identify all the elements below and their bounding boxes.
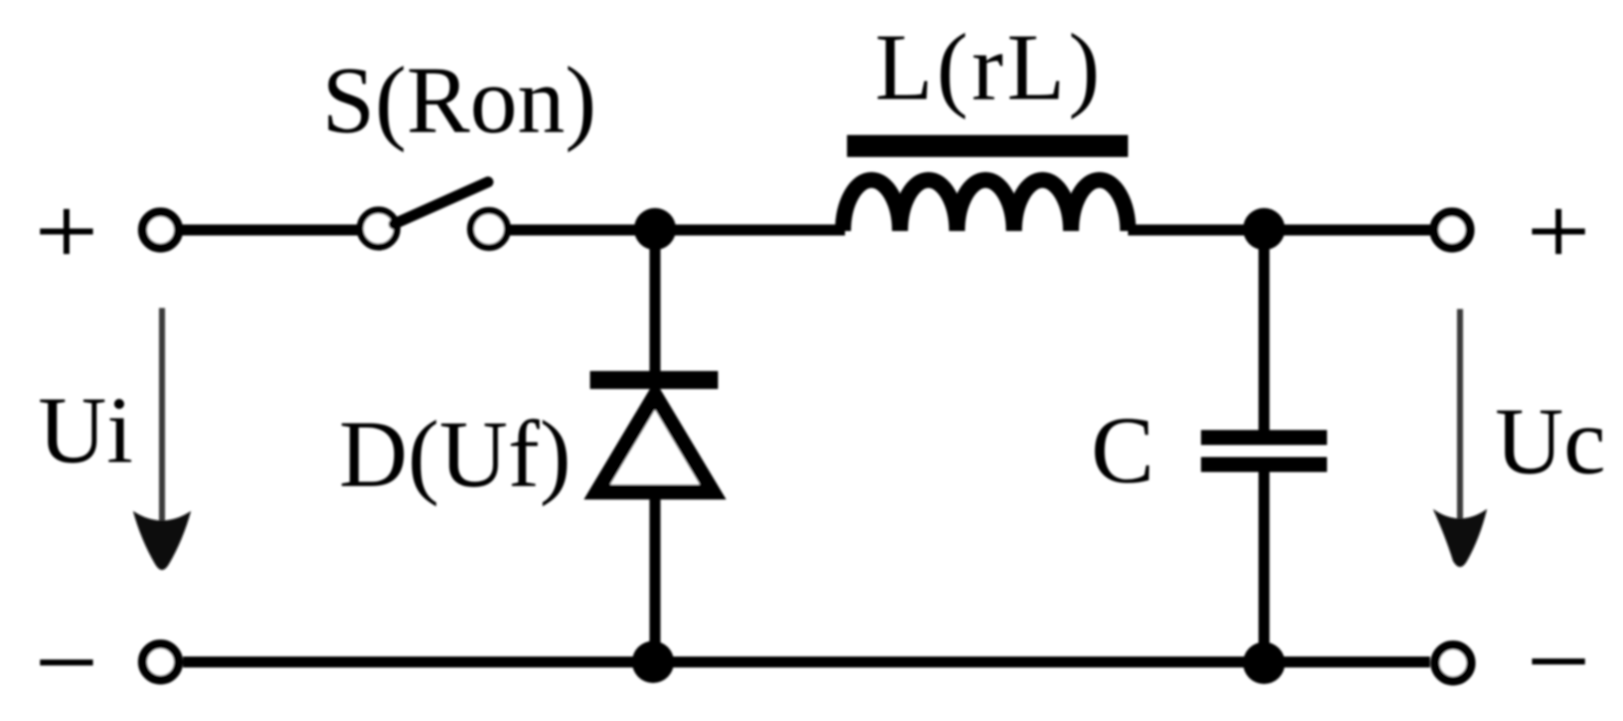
diode D(Uf) xyxy=(590,371,718,492)
terminal T3 input bottom xyxy=(143,644,179,680)
bottom rail wire xyxy=(183,657,1430,668)
switch S(Ron) xyxy=(360,182,508,248)
svg-text:Ui: Ui xyxy=(38,377,133,483)
minus sign output - xyxy=(1532,659,1585,665)
plus sign output + xyxy=(1532,209,1585,254)
terminal T2 output top xyxy=(1434,212,1470,248)
voltage arrow Uc xyxy=(1433,309,1487,567)
svg-text:Uc: Uc xyxy=(1495,388,1606,494)
node B junction dot xyxy=(1243,208,1285,250)
node D junction dot capacitor bottom xyxy=(1243,642,1285,684)
wire node B to output terminal xyxy=(1264,225,1430,236)
svg-text:S(Ron): S(Ron) xyxy=(322,47,596,153)
node C junction dot diode bottom xyxy=(632,641,674,683)
terminal T1 input top xyxy=(143,212,179,248)
terminal T4 output bottom xyxy=(1435,645,1471,681)
wire input terminal to switch xyxy=(182,225,358,236)
wire switch to node A xyxy=(509,225,658,236)
svg-text:C: C xyxy=(1091,397,1154,503)
wire node B to capacitor xyxy=(1259,229,1270,431)
wire capacitor to bottom rail xyxy=(1259,472,1270,666)
wire node A to diode xyxy=(650,229,661,374)
wire inductor to node B xyxy=(1128,225,1264,236)
inductor L(rL) xyxy=(843,135,1128,231)
svg-text:D(Uf): D(Uf) xyxy=(339,401,571,507)
voltage arrow Ui xyxy=(133,308,191,570)
wire diode to bottom rail xyxy=(650,494,661,666)
capacitor C xyxy=(1201,430,1327,472)
wire node A to inductor xyxy=(655,225,845,236)
plus sign input + xyxy=(40,209,93,254)
minus sign input - xyxy=(40,660,93,666)
node A junction dot xyxy=(634,208,676,250)
